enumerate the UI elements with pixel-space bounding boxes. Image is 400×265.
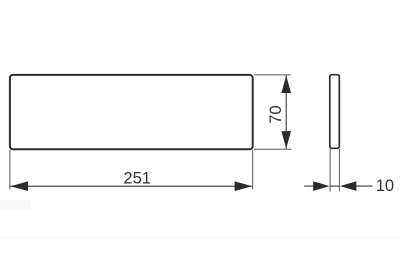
arrowhead top (70) bbox=[281, 75, 291, 93]
faint artifact band bbox=[0, 236, 400, 239]
arrowhead left (251) bbox=[10, 181, 28, 191]
extension line top (70 dim) bbox=[254, 74, 291, 76]
svg-text:251: 251 bbox=[123, 168, 151, 187]
right tail line (10 dim) bbox=[356, 185, 373, 187]
left tail line (10 dim) bbox=[304, 185, 313, 187]
faint artifact block bottom-left bbox=[0, 200, 31, 211]
arrowhead right (251) bbox=[235, 181, 253, 191]
extension line left (251 dim) bbox=[9, 150, 11, 190]
dimension line 70 bbox=[285, 75, 287, 148]
arrowhead pointing left (10) bbox=[340, 181, 356, 191]
front view plate outline bbox=[10, 75, 253, 149]
side view plate outline bbox=[330, 75, 340, 149]
extension line right (251 dim) bbox=[252, 150, 254, 190]
dimension line between extension lines (10) bbox=[330, 185, 339, 187]
extension line left (10 dim) bbox=[329, 149, 331, 192]
extension line bottom (70 dim) bbox=[254, 148, 292, 150]
dimension line 251 bbox=[10, 185, 252, 187]
svg-text:70: 70 bbox=[266, 105, 285, 123]
arrowhead pointing right (10) bbox=[313, 181, 329, 191]
extension line right (10 dim) bbox=[338, 149, 340, 192]
arrowhead bottom (70) bbox=[281, 131, 291, 149]
svg-text:10: 10 bbox=[376, 176, 394, 195]
